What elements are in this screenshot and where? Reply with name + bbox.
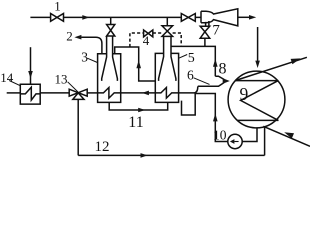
vessel 3 nozzle neck and diffuser cone (102, 36, 118, 81)
wire: vent line 2 from vessel 3 top (81, 37, 102, 54)
pump 10 (228, 134, 242, 148)
svg-text:9: 9 (240, 84, 249, 104)
condenser 9 internal coil (235, 81, 278, 121)
valve 1 (51, 14, 64, 22)
wire: dashed control line right to line B (173, 33, 182, 46)
heater 14 (box with zigzag) (20, 84, 40, 104)
vessel 3 (flash evaporator, outer shell) (98, 54, 121, 103)
wire: condenser bottom to line 12 (264, 127, 266, 156)
wire: line 6 with jog to condenser (179, 83, 224, 93)
valve (steam inlet of vessel 3) (107, 25, 115, 37)
wire: vapor line from vessel 5 to vessel 3 top (115, 47, 156, 81)
wire: inlet line into condenser from top (257, 27, 259, 61)
arrow on inlet diagonal (284, 132, 294, 138)
flow arrow on line 11 (138, 108, 145, 113)
wire: line 11 between vessel bottoms (109, 102, 168, 110)
svg-text:8: 8 (219, 61, 227, 78)
leader of label 6 (194, 78, 210, 85)
pump internal arrow (234, 141, 238, 143)
arrow at ejector outlet (249, 15, 256, 20)
leader of label 14 (9, 81, 20, 86)
wire: valve 13 to vessel 3 shell (87, 92, 97, 94)
arrow of line 2 (74, 35, 81, 40)
valve on main line before ejector (181, 14, 195, 22)
svg-text:4: 4 (143, 33, 150, 48)
vessel 5 (flash evaporator, outer shell) (155, 53, 178, 102)
ejector (steam jet compressor) (201, 9, 238, 26)
flow arrow up on that line (136, 60, 141, 68)
valve 7 (200, 26, 210, 38)
wire: pump discharge up and over (194, 94, 227, 142)
vessel 5 nozzle neck and diffuser cone (159, 36, 176, 81)
wire: valve 7 line from ejector (205, 21, 209, 46)
leader of label 13 (68, 82, 78, 92)
wire: dashed control line left corner (130, 33, 144, 47)
down arrow into condenser (255, 61, 260, 68)
wire: main steam line (30, 16, 201, 18)
wire: cooling water inlet diagonal (263, 126, 310, 146)
svg-text:14: 14 (0, 70, 14, 85)
wire: branch to vessel 5 (166, 17, 168, 25)
heating zigzag inside vessel 3 (98, 88, 121, 99)
leader of label 5 (179, 55, 187, 59)
svg-text:3: 3 (81, 50, 88, 65)
condenser 9 (shell) (228, 71, 285, 128)
leader of label 3 (87, 58, 97, 62)
wire: ejector outlet (238, 16, 250, 18)
svg-text:5: 5 (188, 51, 195, 66)
wire: branch to vessel 3 (110, 17, 112, 24)
wire: line B from vessel 5 neck to ejector suction drop (171, 46, 215, 76)
svg-text:13: 13 (55, 71, 68, 86)
wire: vessel 3 to vessel 5 water line (121, 92, 156, 94)
wire: drop into vessel 5 shell bottom (182, 94, 196, 116)
valve 4 (144, 30, 153, 37)
wire: upper branch into condenser (215, 76, 224, 79)
arrow on outlet diagonal (291, 58, 301, 64)
flow arrow on main line (82, 15, 89, 20)
svg-text:11: 11 (128, 114, 143, 131)
flow arrow up on pump discharge (213, 113, 218, 121)
flow arrow on line 12 (141, 153, 148, 158)
wire: heater 14 to valve 13 (40, 92, 69, 94)
wire: stream down into heater 14 (30, 47, 32, 84)
svg-text:12: 12 (95, 139, 110, 155)
wire: valve 13 down to line 12 (77, 99, 79, 155)
wire: line 12 bottom return (78, 154, 264, 156)
down arrow into heater 14 (28, 71, 33, 78)
svg-text:6: 6 (187, 68, 194, 83)
three-way valve 13 (69, 89, 87, 99)
flow arrow up on line 8 drop (213, 59, 218, 67)
arrow into condenser (line 6) (223, 78, 230, 83)
wire: dashed control line middle (153, 32, 162, 34)
valve (steam inlet of vessel 5) (162, 26, 173, 37)
heating zigzag inside vessel 5 (155, 88, 178, 99)
wire: hot water line from left to heater 14 (7, 92, 21, 94)
svg-text:2: 2 (66, 29, 73, 44)
wire: cooling water outlet diagonal (235, 57, 307, 80)
svg-text:7: 7 (212, 23, 220, 39)
left flow arrow between vessels (142, 91, 149, 96)
wire: condensate from condenser bottom to pump (242, 128, 257, 142)
svg-text:1: 1 (54, 0, 61, 14)
